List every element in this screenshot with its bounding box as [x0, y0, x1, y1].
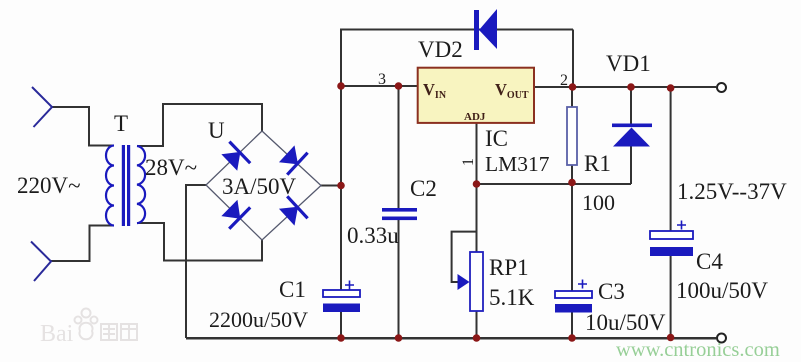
capacitor C4 — [650, 221, 693, 257]
junction: pin 2 output node — [569, 83, 577, 91]
bridge diode D-topright — [280, 147, 308, 175]
svg-text:T: T — [114, 111, 128, 136]
wire: ground bottom rail — [186, 337, 716, 340]
wire: main vertical line node to C1 top — [340, 29, 342, 291]
wire: top rail right drop to pin2 — [572, 30, 574, 88]
junction: VD1 top node — [627, 83, 635, 91]
svg-text:RP1: RP1 — [489, 255, 529, 280]
junction: bridge DC+ node — [337, 182, 345, 190]
wire: C4 bottom to ground rail — [670, 256, 672, 338]
svg-text:VD2: VD2 — [418, 37, 463, 62]
wire: C2 branch top — [398, 86, 400, 208]
transformer T secondary winding — [137, 146, 145, 223]
wire: R1 bottom to ADJ line and C3 — [571, 165, 573, 291]
wire: secondary top to bridge top vertex — [137, 104, 262, 146]
potentiometer RP1 body — [470, 252, 483, 311]
bridge diode D-bottomright — [280, 196, 308, 224]
svg-text:LM317: LM317 — [485, 152, 550, 176]
diode VD1 — [612, 124, 652, 147]
junction: ADJ node — [473, 180, 481, 188]
bridge diode D-bottomleft — [222, 201, 250, 229]
svg-text:C4: C4 — [696, 249, 723, 274]
output terminal top — [717, 83, 726, 92]
svg-text:2: 2 — [560, 72, 568, 89]
IC U1 LM317 body — [418, 68, 534, 123]
svg-text:VD1: VD1 — [606, 51, 651, 76]
svg-text:1.25V--37V: 1.25V--37V — [677, 179, 787, 204]
transformer T core — [122, 145, 125, 226]
junction: C3 ground node — [568, 334, 576, 342]
svg-text:100: 100 — [582, 190, 615, 215]
output terminal bottom — [717, 334, 726, 343]
wire: pin 2 to output rail — [534, 86, 716, 88]
wire: secondary bottom to bridge bottom vertex — [137, 223, 262, 261]
svg-text:2200u/50V: 2200u/50V — [209, 307, 308, 332]
wire: RP1 bottom to ground rail — [476, 311, 478, 338]
junction: C2 top node — [395, 82, 403, 90]
svg-text:Bai: Bai — [40, 321, 74, 347]
wire: bridge right vertex (DC+) to main node — [321, 185, 341, 187]
wire: bridge left vertex (DC-) down to ground rail — [186, 185, 206, 338]
resistor R1 — [567, 107, 577, 165]
potentiometer RP1 wiper arrow head — [458, 274, 470, 290]
wire: VD1 bottom down to ADJ line — [630, 146, 632, 184]
svg-text:C3: C3 — [598, 279, 625, 304]
svg-text:5.1K: 5.1K — [489, 285, 535, 310]
junction: R1 bottom node — [568, 179, 576, 187]
junction: C4 top node — [667, 84, 675, 92]
svg-text:0.33u: 0.33u — [347, 223, 399, 248]
svg-text:C1: C1 — [279, 277, 306, 302]
wire: bottom plug to primary bottom — [51, 226, 114, 262]
wire: ADJ pin down to potentiometer — [476, 123, 478, 252]
svg-text:28V~: 28V~ — [145, 155, 197, 180]
svg-text:10u/50V: 10u/50V — [585, 310, 666, 335]
wire: top rail through VD2 — [340, 29, 573, 31]
svg-text:U: U — [208, 118, 225, 143]
wire: top plug to primary top — [52, 107, 114, 146]
wire: R1 branch from pin2 node — [571, 87, 573, 107]
watermark baidu — [40, 309, 137, 348]
diode VD2 — [474, 9, 497, 50]
junction: pin 3 input node — [337, 82, 345, 90]
junction: C1 ground node — [337, 334, 345, 342]
svg-text:220V~: 220V~ — [17, 173, 81, 198]
svg-text:1: 1 — [460, 158, 477, 166]
capacitor C3 — [555, 280, 592, 313]
junction: C2 ground node — [395, 334, 403, 342]
wire: RP1 wiper tie — [452, 232, 477, 282]
svg-text:100u/50V: 100u/50V — [676, 278, 768, 303]
junction: RP1 ground node — [473, 334, 481, 342]
svg-text:IC: IC — [485, 126, 508, 151]
wire: C1 bottom to ground rail — [340, 311, 342, 338]
wire: C4 branch from output rail — [670, 88, 672, 231]
wire: C3 bottom to ground rail — [571, 312, 573, 338]
capacitor C1 — [323, 281, 360, 313]
svg-text:3: 3 — [378, 71, 386, 88]
junction: C4 ground node — [667, 334, 675, 342]
wire: ADJ node horizontal to R1 bottom and VD1 bottom — [477, 183, 632, 185]
svg-text:www.cntronics.com: www.cntronics.com — [616, 339, 780, 361]
capacitor C2 — [382, 208, 417, 220]
svg-text:R1: R1 — [584, 151, 611, 176]
plug P2 (220V line bottom prong) — [31, 242, 51, 282]
transformer T primary winding — [106, 146, 114, 226]
wire: pin 3 input wire — [341, 85, 418, 87]
plug P1 (220V line top prong) — [32, 87, 52, 127]
wire: VD1 top from output rail — [630, 87, 632, 124]
bridge rectifier U diamond outline — [206, 131, 321, 240]
wire: C2 bottom to ground rail — [398, 220, 400, 338]
svg-text:C2: C2 — [410, 176, 437, 201]
svg-text:3A/50V: 3A/50V — [222, 174, 297, 199]
svg-text:ADJ: ADJ — [464, 111, 486, 123]
bridge diode D-topleft — [222, 142, 250, 170]
